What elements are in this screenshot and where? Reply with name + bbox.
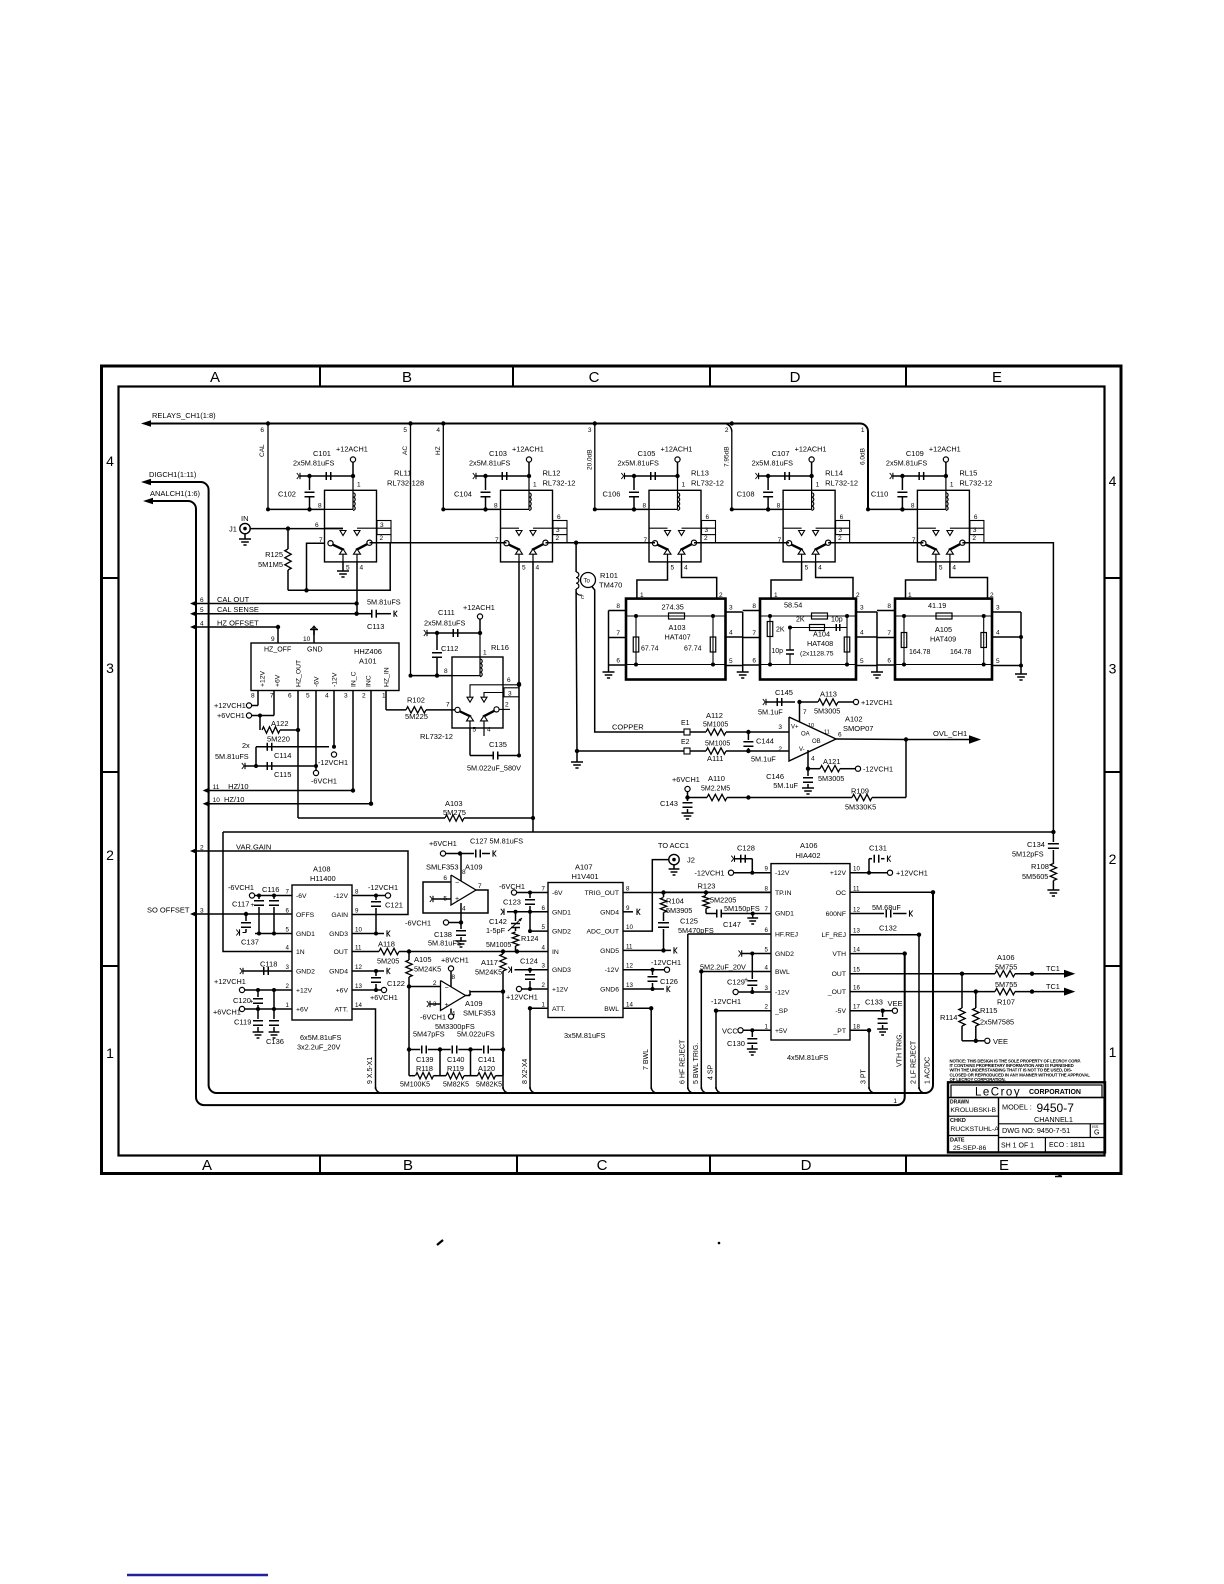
svg-text:+6VCH1: +6VCH1 <box>217 711 245 720</box>
wire RL12 pin5 down <box>518 562 520 684</box>
svg-text:6: 6 <box>838 732 842 739</box>
svg-text:2x5M.81uFS: 2x5M.81uFS <box>424 619 466 628</box>
svg-text:11: 11 <box>355 945 362 952</box>
svg-text:5: 5 <box>805 565 809 572</box>
svg-text:5M1005: 5M1005 <box>705 741 730 748</box>
svg-text:5M.81uFS: 5M.81uFS <box>367 598 401 607</box>
svg-text:A117: A117 <box>481 958 498 967</box>
stray mark tick left of center bottom <box>437 1240 443 1245</box>
svg-text:8: 8 <box>777 503 781 510</box>
svg-text:C143: C143 <box>660 799 678 808</box>
svg-text:6: 6 <box>887 658 891 665</box>
svg-text:+6VCH1: +6VCH1 <box>213 1008 241 1017</box>
svg-text:6: 6 <box>315 522 319 529</box>
svg-text:5M330K5: 5M330K5 <box>845 803 876 812</box>
svg-text:A102: A102 <box>845 715 863 724</box>
svg-text:7 BWL: 7 BWL <box>643 1049 650 1070</box>
wire GND4 stub <box>623 911 633 913</box>
svg-text:1 AC/DC: 1 AC/DC <box>925 1057 932 1084</box>
svg-text:4: 4 <box>106 453 114 469</box>
svg-text:2: 2 <box>725 427 729 434</box>
svg-text:+12ACH1: +12ACH1 <box>661 445 693 454</box>
svg-text:C126: C126 <box>660 977 678 986</box>
svg-text:DRAWN: DRAWN <box>950 1100 969 1106</box>
svg-text:OC: OC <box>836 890 846 897</box>
svg-text:RL732-12: RL732-12 <box>420 732 453 741</box>
svg-text:5M.81uFS: 5M.81uFS <box>428 939 462 948</box>
svg-text:164.78: 164.78 <box>950 649 972 656</box>
wire HZ OFFSET to pin 9 <box>196 627 278 643</box>
wire pin8 to +6VCH1 <box>460 854 462 882</box>
svg-text:164.78: 164.78 <box>909 649 931 656</box>
svg-text:4x5M.81uFS: 4x5M.81uFS <box>787 1053 829 1062</box>
svg-text:HAT407: HAT407 <box>665 633 691 642</box>
svg-text:6: 6 <box>443 875 447 882</box>
svg-text:2K: 2K <box>796 617 805 624</box>
resistor A122 5M220 <box>259 716 261 731</box>
svg-text:6 HF REJECT: 6 HF REJECT <box>680 1039 687 1084</box>
svg-text:RL732-12: RL732-12 <box>543 479 576 488</box>
svg-text:C144: C144 <box>756 737 774 746</box>
svg-text:+12VCH1: +12VCH1 <box>214 701 246 710</box>
node tab 5 CAL SENSE <box>190 611 197 617</box>
svg-text:11: 11 <box>626 943 633 950</box>
wire _SP pin2 to bus <box>716 1010 771 1012</box>
svg-text:C114: C114 <box>274 751 291 760</box>
svg-text:7: 7 <box>752 630 756 637</box>
svg-text:C128: C128 <box>737 844 755 853</box>
svg-text:6: 6 <box>974 514 978 521</box>
svg-text:HAT409: HAT409 <box>930 635 956 644</box>
power -6VCH1 pin4 <box>450 1009 452 1014</box>
svg-text:A111: A111 <box>707 754 723 763</box>
svg-text:CORPORATION: CORPORATION <box>1029 1089 1081 1096</box>
svg-text:C145: C145 <box>775 688 793 697</box>
svg-text:10: 10 <box>808 723 814 729</box>
svg-text:3: 3 <box>996 605 1000 612</box>
svg-text:4: 4 <box>811 756 815 763</box>
wire RL16 pin6 stub <box>470 685 519 697</box>
node tab 11 _HZ/10 <box>203 788 210 794</box>
node tab 6 CAL OUT <box>190 601 197 607</box>
resistor row of network <box>408 1050 410 1076</box>
svg-text:HF.REJ: HF.REJ <box>775 932 798 939</box>
svg-text:A105: A105 <box>414 955 432 964</box>
wire VAR.GAIN to GAIN pin 9 <box>196 851 408 915</box>
svg-text:+6VCH1: +6VCH1 <box>672 775 700 784</box>
svg-text:5: 5 <box>286 927 290 934</box>
svg-text:LF_REJ: LF_REJ <box>821 932 846 939</box>
svg-text:V-: V- <box>799 747 805 753</box>
svg-text:2: 2 <box>1109 851 1117 867</box>
svg-text:VEE: VEE <box>993 1037 1008 1046</box>
svg-text:11: 11 <box>853 885 860 892</box>
svg-text:7: 7 <box>319 537 323 544</box>
svg-text:TP.IN: TP.IN <box>775 890 792 897</box>
wire TRIG_OUT row <box>623 892 771 894</box>
svg-text:10p: 10p <box>831 617 843 624</box>
svg-text:+12VCH1: +12VCH1 <box>506 993 538 1002</box>
svg-text:+12V: +12V <box>296 988 313 995</box>
wire pin8 row RL12 <box>443 508 500 510</box>
svg-text:5M.1uF: 5M.1uF <box>751 755 776 764</box>
svg-text:5M82K5: 5M82K5 <box>443 1082 469 1089</box>
svg-text:5M1005: 5M1005 <box>703 722 728 729</box>
wire TP.IN row pin8 <box>664 891 772 893</box>
svg-text:A103: A103 <box>445 799 463 808</box>
svg-text:G: G <box>1094 1130 1099 1137</box>
svg-text:67.74: 67.74 <box>641 646 659 653</box>
zone tick right 4/3 <box>1105 577 1122 579</box>
svg-text:−: − <box>445 985 449 992</box>
svg-text:2: 2 <box>972 535 976 542</box>
svg-text:ANALCH1(1:6): ANALCH1(1:6) <box>150 489 201 498</box>
svg-text:6.0dB: 6.0dB <box>860 448 867 465</box>
svg-text:A107: A107 <box>575 863 593 872</box>
wire BWL pin14 to bus <box>623 1007 651 1009</box>
wire pin8 row RL15 <box>868 508 917 510</box>
wire GND5 stub <box>623 949 671 951</box>
node tab 10 HZ/10 <box>203 801 210 807</box>
svg-text:CHKD: CHKD <box>950 1118 966 1124</box>
svg-text:SMOP07: SMOP07 <box>843 724 873 733</box>
svg-text:A120: A120 <box>478 1064 495 1073</box>
wire RL16 pin5 to C135 <box>469 728 471 756</box>
stray dot center bottom <box>718 1242 721 1245</box>
svg-text:ISS: ISS <box>1092 1124 1099 1129</box>
svg-text:11: 11 <box>824 730 830 736</box>
svg-text:R104: R104 <box>666 897 684 906</box>
svg-text:9: 9 <box>355 908 359 915</box>
svg-text:3: 3 <box>839 527 843 534</box>
wire GND1 row <box>255 933 292 935</box>
wire drop 7.95dB 2 <box>731 431 733 509</box>
power VEE rail <box>962 1040 976 1042</box>
wire op-amp output OVL_CH1 <box>836 738 906 741</box>
svg-text:7: 7 <box>286 889 290 896</box>
svg-text:A113: A113 <box>820 690 837 699</box>
zone tick left 2/1 <box>102 965 119 967</box>
svg-text:(2x1128.75: (2x1128.75 <box>800 651 834 658</box>
wire GND1 row pin7 <box>753 913 771 915</box>
wire _HZ/10 to IN_C <box>209 691 353 791</box>
svg-text:3: 3 <box>729 605 733 612</box>
svg-text:C112: C112 <box>441 644 458 653</box>
svg-text:5M.1uF: 5M.1uF <box>758 708 783 717</box>
svg-text:+12ACH1: +12ACH1 <box>795 445 827 454</box>
svg-text:4: 4 <box>360 565 364 572</box>
svg-text:-12VCH1: -12VCH1 <box>711 997 741 1006</box>
svg-text:6: 6 <box>507 677 511 684</box>
svg-text:5M3905: 5M3905 <box>666 906 692 915</box>
svg-text:5: 5 <box>860 658 864 665</box>
svg-text:IN_C: IN_C <box>351 671 358 687</box>
relay RL14 RL732-12 <box>783 476 850 562</box>
svg-text:1: 1 <box>861 427 865 434</box>
svg-text:5M3005: 5M3005 <box>818 774 844 783</box>
svg-text:10: 10 <box>853 866 860 873</box>
svg-text:2: 2 <box>838 535 842 542</box>
svg-text:C102: C102 <box>278 490 296 499</box>
wire OC pin11 to AC/DC tap <box>850 891 933 893</box>
svg-text:1: 1 <box>893 1098 897 1105</box>
svg-text:5: 5 <box>729 658 733 665</box>
svg-text:VTH: VTH <box>832 951 846 958</box>
svg-text:5M205: 5M205 <box>377 957 399 966</box>
svg-text:OFFS: OFFS <box>296 912 315 919</box>
svg-text:5M100K5: 5M100K5 <box>400 1082 430 1089</box>
svg-text:16: 16 <box>853 985 860 992</box>
svg-text:3: 3 <box>973 527 977 534</box>
svg-text:2: 2 <box>778 746 782 753</box>
svg-text:2x5M.81uFS: 2x5M.81uFS <box>469 459 511 468</box>
wire ATT pin14 to bus <box>352 1009 376 1089</box>
svg-text:+12VCH1: +12VCH1 <box>861 698 893 707</box>
svg-text:5M3005: 5M3005 <box>814 707 840 716</box>
wire GND3 row <box>515 969 549 971</box>
svg-text:A106: A106 <box>800 841 818 850</box>
svg-text:C109: C109 <box>906 449 924 458</box>
wire op-amp output <box>466 995 471 997</box>
node plus input bracket <box>432 896 434 902</box>
svg-text:R123: R123 <box>698 882 716 891</box>
zone tick right 2/1 <box>1105 965 1122 967</box>
svg-text:5M.81uFS: 5M.81uFS <box>215 752 249 761</box>
svg-text:5M150pFS: 5M150pFS <box>724 904 760 913</box>
transformer R101 TM470 <box>575 543 577 572</box>
zone tick bottom C/D <box>709 1156 711 1174</box>
svg-text:C140: C140 <box>447 1055 464 1064</box>
svg-text:CHANNEL1: CHANNEL1 <box>1034 1115 1073 1124</box>
svg-text:+12VCH1: +12VCH1 <box>214 977 246 986</box>
svg-text:RL732-12: RL732-12 <box>959 479 992 488</box>
svg-text:OA: OA <box>801 732 810 738</box>
svg-text:C122: C122 <box>387 979 405 988</box>
wire RL13 pin5 to A103 pin1 <box>637 562 668 599</box>
svg-text:C133: C133 <box>865 998 883 1007</box>
svg-text:3: 3 <box>344 693 348 700</box>
svg-text:AC: AC <box>402 446 409 455</box>
svg-text:6: 6 <box>616 658 620 665</box>
svg-text:14: 14 <box>355 1002 362 1009</box>
svg-text:GND2: GND2 <box>775 951 794 958</box>
svg-text:C123: C123 <box>503 898 521 907</box>
svg-text:VTH TRIG.: VTH TRIG. <box>897 1032 904 1067</box>
svg-text:-12V: -12V <box>334 893 349 900</box>
svg-text:TM470: TM470 <box>599 581 622 590</box>
svg-text:A122: A122 <box>271 719 289 728</box>
stray arrow under bottom frame <box>1055 1174 1062 1177</box>
svg-text:BWL: BWL <box>604 1006 619 1013</box>
wire -12V pin 4 <box>333 691 335 747</box>
svg-text:8: 8 <box>626 886 630 893</box>
svg-text:HZ_OUT: HZ_OUT <box>296 660 303 687</box>
capacitor C113 5M.81uFS <box>357 613 372 615</box>
svg-text:C103: C103 <box>489 449 507 458</box>
svg-text:8: 8 <box>752 603 756 610</box>
svg-text:OVL_CH1: OVL_CH1 <box>933 729 967 738</box>
svg-text:5M2.2M5: 5M2.2M5 <box>701 786 730 793</box>
svg-text:DIGCH1(1:11): DIGCH1(1:11) <box>149 470 197 479</box>
svg-text:C104: C104 <box>454 490 472 499</box>
zone tick top A/B <box>319 366 321 387</box>
svg-text:8: 8 <box>318 503 322 510</box>
svg-text:C113: C113 <box>367 622 384 631</box>
svg-text:+: + <box>250 999 254 1006</box>
svg-text:A: A <box>210 369 220 386</box>
svg-text:VEE: VEE <box>888 999 903 1008</box>
svg-text:7: 7 <box>542 886 546 893</box>
svg-text:8: 8 <box>355 889 359 896</box>
svg-text:20.0dB: 20.0dB <box>587 449 594 470</box>
wire GND4 row <box>352 970 384 972</box>
svg-text:5M220: 5M220 <box>267 735 290 744</box>
svg-text:3: 3 <box>765 985 769 992</box>
svg-text:HAT408: HAT408 <box>807 639 833 648</box>
wire RL14 pin4 to A104 pin2 <box>816 562 853 599</box>
svg-text:-12VCH1: -12VCH1 <box>318 758 348 767</box>
wire ADC_OUT to J2 <box>623 860 669 932</box>
svg-text:2: 2 <box>765 1004 769 1011</box>
svg-text:C132: C132 <box>879 924 897 933</box>
svg-text:1: 1 <box>286 1002 290 1009</box>
svg-text:C127 5M.81uFS: C127 5M.81uFS <box>470 837 523 846</box>
svg-text:4: 4 <box>542 945 546 952</box>
svg-text:GND2: GND2 <box>296 969 315 976</box>
svg-text:C110: C110 <box>871 490 888 499</box>
wire HZ/10 to INC <box>209 691 371 804</box>
wire SO OFFSET to OFFS pin 6 <box>196 913 292 915</box>
svg-text:C146: C146 <box>766 772 784 781</box>
svg-text:-6VCH1: -6VCH1 <box>499 882 525 891</box>
svg-text:R102: R102 <box>407 696 425 705</box>
svg-text:A103: A103 <box>669 623 686 632</box>
svg-text:1-5pF: 1-5pF <box>486 926 506 935</box>
svg-text:C108: C108 <box>737 490 755 499</box>
svg-text:GND2: GND2 <box>552 929 571 936</box>
blue underline bottom left <box>127 1574 268 1577</box>
svg-text:2x5M.81uFS: 2x5M.81uFS <box>752 459 794 468</box>
wire GND3 row <box>352 933 384 935</box>
wire pin7 <box>799 702 801 722</box>
svg-text:10: 10 <box>355 927 362 934</box>
wire RL14 pin5 to A104 pin1 <box>771 562 802 599</box>
svg-text:A105: A105 <box>935 625 952 634</box>
wire RL15 pin2 to right drop <box>962 543 1053 832</box>
svg-text:J2: J2 <box>687 856 695 865</box>
wire RL11 termination loop <box>288 543 390 591</box>
svg-text:C111: C111 <box>438 608 455 617</box>
svg-text:RL12: RL12 <box>543 469 561 478</box>
svg-text:+6V: +6V <box>336 988 349 995</box>
svg-text:8: 8 <box>643 503 647 510</box>
svg-text:-6VCH1: -6VCH1 <box>405 919 431 928</box>
svg-text:8: 8 <box>494 503 498 510</box>
svg-text:5M1005: 5M1005 <box>486 942 511 949</box>
zone tick left 4/3 <box>102 577 119 579</box>
svg-text:8: 8 <box>911 503 915 510</box>
svg-text:RL732-12: RL732-12 <box>825 479 858 488</box>
svg-text:3: 3 <box>556 527 560 534</box>
svg-text:4: 4 <box>952 565 956 572</box>
svg-text:5M755: 5M755 <box>995 963 1017 972</box>
svg-text:9: 9 <box>626 905 630 912</box>
svg-text:2: 2 <box>556 535 560 542</box>
svg-text:SH 1 OF 1: SH 1 OF 1 <box>1001 1143 1034 1150</box>
svg-text:RELAYS_CH1(1:8): RELAYS_CH1(1:8) <box>152 411 216 420</box>
svg-text:6x5M.81uFS: 6x5M.81uFS <box>300 1033 342 1042</box>
power +12VCH1 pin10 <box>850 872 887 874</box>
svg-text:8: 8 <box>765 885 769 892</box>
svg-text:ATT.: ATT. <box>335 1007 349 1014</box>
svg-text:3: 3 <box>106 660 114 676</box>
svg-text:3: 3 <box>860 605 864 612</box>
svg-text:CAL: CAL <box>259 444 266 457</box>
zone tick bottom D/E <box>905 1156 907 1174</box>
svg-text:1: 1 <box>765 1023 769 1030</box>
wire RL15 pin5 to A105 pin1 <box>906 562 936 599</box>
relay RL13 RL732-12 <box>649 476 716 562</box>
wire RL12 pin4 down to rail <box>532 562 534 832</box>
svg-text:6: 6 <box>260 427 264 434</box>
svg-text:GND3: GND3 <box>552 967 571 974</box>
svg-text:SMLF353: SMLF353 <box>426 863 459 872</box>
svg-text:C134: C134 <box>1027 840 1045 849</box>
svg-text:41.19: 41.19 <box>928 601 946 610</box>
svg-text:5: 5 <box>765 947 769 954</box>
svg-text:SMLF353: SMLF353 <box>463 1009 496 1018</box>
svg-text:OB: OB <box>812 739 821 745</box>
svg-text:To: To <box>584 579 591 585</box>
svg-text:E: E <box>992 369 1002 386</box>
svg-text:9: 9 <box>271 636 275 643</box>
svg-text:600NF: 600NF <box>826 911 846 918</box>
svg-text:C: C <box>597 1157 608 1174</box>
svg-text:GND3: GND3 <box>329 931 348 938</box>
svg-text:9: 9 <box>765 866 769 873</box>
zone tick top C/D <box>709 366 711 387</box>
node tab 2 VAR.GAIN <box>190 848 197 854</box>
svg-text:6: 6 <box>288 693 292 700</box>
svg-text:DWG NO: 9450-7-51: DWG NO: 9450-7-51 <box>1002 1126 1070 1135</box>
svg-text:6: 6 <box>706 514 710 521</box>
svg-text:4: 4 <box>536 565 540 572</box>
svg-text:D: D <box>801 1157 812 1174</box>
svg-text:R115: R115 <box>980 1006 997 1015</box>
svg-text:A109: A109 <box>465 999 483 1008</box>
svg-text:13: 13 <box>853 928 860 935</box>
svg-text:C130: C130 <box>727 1039 745 1048</box>
wire -6V pin 5 <box>315 691 317 767</box>
svg-text:-12V: -12V <box>775 870 790 877</box>
relay RL12 RL732-12 <box>501 476 568 562</box>
svg-text:-6V: -6V <box>552 890 563 897</box>
svg-text:TC1: TC1 <box>1046 982 1060 991</box>
svg-text:5: 5 <box>403 427 407 434</box>
wire attenuator input stubs <box>608 611 610 673</box>
ground at J1 <box>244 534 246 539</box>
svg-text:5M.022uF_580V: 5M.022uF_580V <box>467 764 521 773</box>
svg-text:C137: C137 <box>241 938 259 947</box>
wire pin8 row RL13 <box>595 508 649 510</box>
svg-text:5M24K5: 5M24K5 <box>414 965 441 974</box>
wire pin8 row RL11 <box>268 508 325 510</box>
wire E2 from ground leg <box>577 750 684 752</box>
svg-text:2: 2 <box>380 535 384 542</box>
svg-text:8 X2-X4: 8 X2-X4 <box>522 1059 529 1084</box>
svg-text:RL13: RL13 <box>691 469 709 478</box>
svg-text:5M12pFS: 5M12pFS <box>1012 850 1044 859</box>
